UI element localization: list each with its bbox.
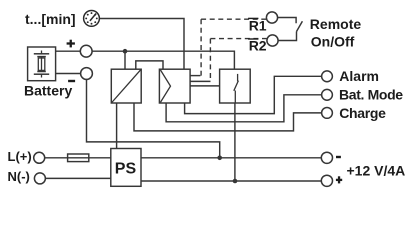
svg-text:Remote: Remote (310, 16, 362, 32)
svg-text:N(-): N(-) (8, 169, 30, 184)
svg-text:Bat. Mode: Bat. Mode (339, 87, 403, 103)
svg-text:Charge: Charge (339, 105, 386, 121)
svg-text:Alarm: Alarm (339, 68, 379, 84)
svg-text:R1: R1 (249, 18, 267, 34)
svg-text:Battery: Battery (24, 82, 72, 98)
svg-text:PS: PS (115, 160, 137, 177)
svg-text:On/Off: On/Off (311, 33, 355, 49)
svg-text:L(+): L(+) (8, 149, 32, 164)
svg-text:t...[min]: t...[min] (25, 11, 76, 27)
svg-text:R2: R2 (249, 37, 267, 53)
svg-text:+12 V/4A: +12 V/4A (347, 163, 406, 179)
